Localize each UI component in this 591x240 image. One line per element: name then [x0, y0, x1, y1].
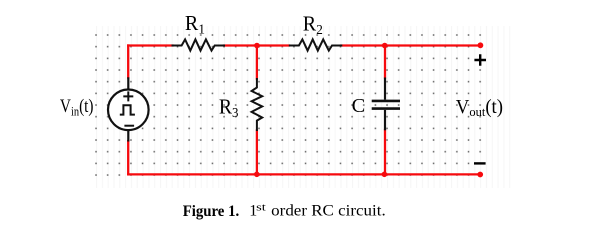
- svg-text:C: C: [352, 95, 366, 117]
- svg-text:order RC circuit.: order RC circuit.: [271, 203, 386, 220]
- svg-text:st: st: [256, 203, 266, 214]
- svg-text:Figure 1.: Figure 1.: [183, 203, 240, 220]
- svg-text:Vin(t): Vin(t): [60, 96, 94, 119]
- svg-text:R1: R1: [185, 13, 205, 37]
- svg-text:R2: R2: [303, 13, 323, 37]
